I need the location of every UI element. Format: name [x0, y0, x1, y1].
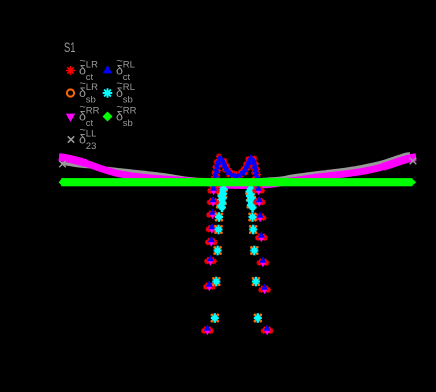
green band right end diamond [413, 179, 417, 185]
svg-text:RL: RL [123, 82, 135, 93]
red asterisk series delta^LR_ct (M shape) [213, 184, 219, 190]
green band left end diamond [59, 179, 62, 185]
gray X marker right end of curve [410, 158, 417, 165]
svg-text:RL: RL [123, 60, 135, 71]
magenta band thick right end [383, 157, 416, 166]
svg-text:23: 23 [86, 141, 97, 152]
green band delta^RR_sb [61, 178, 412, 186]
legend marker gray X [68, 136, 74, 142]
gray curve delta^LL_23 band [61, 154, 410, 181]
left inner trail clusters (cyan/orange) [215, 213, 218, 216]
legend marker magenta down triangle [66, 114, 75, 122]
svg-text:LR: LR [86, 60, 98, 71]
svg-text:LL: LL [86, 129, 97, 140]
right inner trail clusters (cyan/orange) [248, 213, 251, 216]
gray X marker left end of curve [59, 161, 66, 168]
magenta band thick left end [59, 157, 86, 163]
legend marker blue triangle [103, 65, 112, 73]
svg-text:RR: RR [123, 106, 137, 117]
svg-text:sb: sb [123, 118, 133, 129]
blue triangle series delta^RL_ct (M shape) [212, 184, 218, 189]
svg-text:LR: LR [86, 82, 98, 93]
svg-text:sb: sb [86, 95, 96, 106]
right outer trail clusters (red/blue/magenta) [252, 188, 258, 194]
left outer trail clusters (red/blue/magenta) [207, 188, 213, 194]
svg-text:ct: ct [86, 118, 94, 129]
legend marker green diamond [103, 112, 113, 122]
magenta curve delta^RR_ct band [59, 157, 416, 185]
legend marker cyan asterisk [103, 88, 113, 98]
legend marker red asterisk [66, 66, 75, 75]
svg-text:RR: RR [86, 106, 100, 117]
svg-text:S1: S1 [64, 39, 76, 55]
legend marker orange circle [67, 89, 74, 96]
cyan/orange dense strip left leg [225, 189, 228, 192]
svg-text:sb: sb [123, 95, 133, 106]
cyan/orange dense strip right leg [253, 189, 256, 192]
